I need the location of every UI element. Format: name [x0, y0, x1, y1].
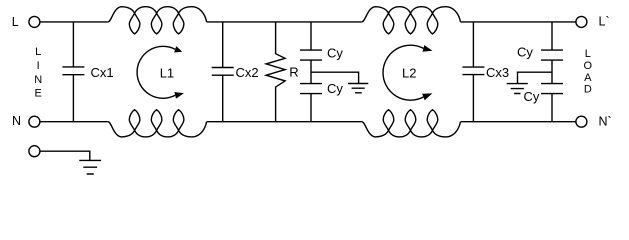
- capacitor Cx3: [462, 22, 484, 122]
- svg-text:LINE: LINE: [34, 46, 42, 100]
- capacitor Cy mid bottom: [300, 60, 322, 122]
- capacitor Cx2: [212, 22, 234, 122]
- ground mid: [348, 84, 368, 93]
- svg-text:Cx2: Cx2: [236, 65, 259, 80]
- L1 arrowhead top: [174, 46, 182, 52]
- svg-text:N: N: [12, 114, 21, 128]
- terminal L: [29, 16, 40, 27]
- svg-text:Cx3: Cx3: [486, 65, 509, 80]
- capacitor Cx1: [62, 22, 84, 122]
- capacitor Cy right top: [541, 22, 563, 60]
- wire top rail left: [40, 21, 108, 23]
- svg-text:L: L: [12, 15, 19, 29]
- wire Cy mid tap: [311, 72, 359, 83]
- L2 arrowhead bottom: [422, 93, 432, 100]
- svg-text:Cy: Cy: [327, 81, 343, 96]
- terminal N: [29, 116, 40, 127]
- wire bottom rail left: [40, 121, 108, 123]
- terminal E (chassis): [29, 146, 40, 157]
- svg-text:N`: N`: [599, 114, 612, 128]
- inductor L1 bottom winding: [108, 110, 207, 137]
- inductor L2 top winding: [362, 7, 461, 34]
- wire bottom rail middle: [207, 121, 362, 123]
- wire top rail right: [461, 21, 576, 23]
- svg-text:L1: L1: [160, 65, 174, 80]
- svg-text:Cy: Cy: [524, 89, 540, 104]
- svg-text:R: R: [289, 65, 298, 80]
- wire chassis: [40, 151, 90, 160]
- L1 arrowhead bottom: [174, 92, 184, 99]
- capacitor Cy right bottom: [541, 60, 563, 122]
- inductor L1 top winding: [108, 7, 207, 34]
- wire top rail middle: [207, 21, 362, 23]
- terminal N': [576, 116, 587, 127]
- L2 flux arrow arc: [383, 45, 423, 100]
- L2 arrowhead top: [423, 45, 433, 52]
- svg-text:Cy: Cy: [327, 46, 343, 61]
- wire Cy right tap: [518, 72, 553, 83]
- capacitor Cy mid top: [300, 22, 322, 60]
- ground chassis: [79, 160, 101, 174]
- ground right: [507, 84, 528, 94]
- svg-text:L2: L2: [402, 65, 416, 80]
- inductor L2 bottom winding: [362, 110, 461, 137]
- terminal L': [576, 16, 587, 27]
- wire bottom rail right: [461, 121, 576, 123]
- svg-text:L`: L`: [599, 15, 610, 29]
- svg-text:Cy: Cy: [517, 44, 533, 59]
- L1 flux arrow arc: [137, 46, 175, 98]
- resistor R: [266, 22, 285, 122]
- svg-text:Cx1: Cx1: [91, 65, 114, 80]
